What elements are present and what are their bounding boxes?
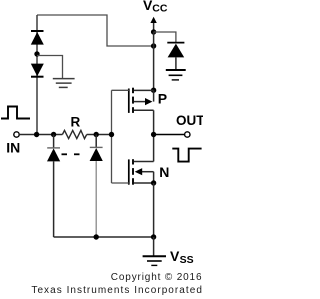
wire NMOS gate lead [112,182,129,184]
node A junction dot on diode stack [34,51,39,56]
svg-text:V: V [170,248,180,264]
ground (left, near diode stack) [53,79,75,88]
node dot rail/diode D5 [94,234,99,239]
node dot gate junction [109,132,114,137]
diode D4 (ESD lower-left, pointing up) [47,135,60,238]
wire rail to VSS ground [153,237,155,256]
wire NMOS source down to VSS rail [153,183,155,237]
svg-text:R: R [71,114,81,129]
ellipsis dashes between diodes [62,153,80,155]
node junction dot VCC lower [151,43,156,48]
node junction dot VCC upper [151,29,156,34]
resistor R zigzag [62,130,86,138]
wire PMOS drain to OUT node to NMOS drain [153,110,155,161]
node dot resistor/diode2 [94,132,99,137]
diode D1 (upper, pointing up) [31,31,44,45]
wire IN row [19,134,62,136]
node dot IN/diode1 [51,132,56,137]
diode D5 (ESD lower-right, pointing up) [90,135,103,238]
node dot IN/diode-stack [34,132,39,137]
terminal IN open circle [14,132,19,137]
wire gate vertical [111,90,113,183]
svg-text:N: N [159,164,169,180]
svg-text:P: P [158,91,167,107]
ground VSS [143,256,166,265]
wire resistor to gate node [87,134,112,136]
output square wave symbol (inverted pulse) [172,149,201,162]
terminal OUT open circle [185,132,190,137]
wire left diode stack vertical [36,15,38,135]
node dot NMOS source [151,180,156,185]
transistor Q1 PMOS P [129,88,154,113]
node junction dot PMOS source [151,88,156,93]
wire branch to left ground [37,56,63,79]
wire branch to right diode [154,32,176,42]
diode D2 (lower, pointing down) [31,64,44,77]
wire VCC vertical down to PMOS source [153,32,155,90]
transistor Q2 NMOS N [129,159,154,185]
svg-text:SS: SS [180,254,194,266]
node dot OUT junction [151,132,156,137]
wire PMOS gate lead [112,89,129,91]
svg-text:IN: IN [6,139,20,155]
diode D3 (right, pointing up) [167,43,184,70]
svg-text:Copyright © 2016,: Copyright © 2016, [111,272,203,283]
node dot rail/ground [151,234,156,239]
svg-text:Texas Instruments Incorporated: Texas Instruments Incorporated [31,285,203,296]
wire OUT lead [154,134,185,136]
wire VSS bottom rail [54,236,154,238]
input square wave symbol [1,107,30,119]
wire top rail from left diode stack to VCC branch [37,15,154,46]
ground (right, under diode D3) [166,70,186,80]
svg-text:OUT: OUT [176,113,203,128]
power arrow VCC [150,17,156,32]
svg-text:CC: CC [152,3,168,15]
